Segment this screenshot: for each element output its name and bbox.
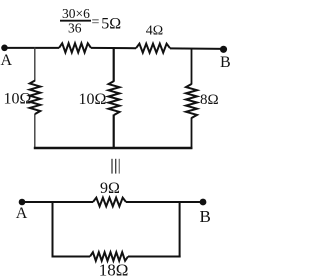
resistor 5 ohm (top) [59, 43, 91, 52]
node B (top circuit) [220, 46, 227, 53]
top branch wires [52, 201, 94, 203]
rectangle right side [179, 201, 181, 258]
svg-text:4Ω: 4Ω [146, 23, 163, 38]
wire between resistors [91, 47, 136, 49]
rectangle left side [52, 201, 54, 258]
resistor 8 ohm (right) [186, 84, 197, 118]
svg-text:=: = [92, 15, 100, 30]
right branch wire [191, 48, 193, 85]
resistor 10 ohm (left) [30, 81, 41, 115]
bottom branch wires [52, 256, 91, 258]
bottom wire (top circuit) [34, 147, 193, 149]
svg-text:30×6: 30×6 [62, 6, 90, 21]
left branch wire [34, 47, 36, 81]
node A (bottom circuit) [19, 199, 26, 206]
svg-text:9Ω: 9Ω [100, 180, 120, 197]
resistor 10 ohm (middle) [109, 81, 120, 115]
resistor 18 ohm [90, 252, 128, 261]
node B (bottom circuit) [200, 199, 207, 206]
svg-text:A: A [1, 52, 13, 69]
svg-text:A: A [16, 205, 28, 222]
svg-text:B: B [200, 207, 211, 226]
svg-text:10Ω: 10Ω [4, 90, 32, 107]
node A (top circuit) [1, 45, 8, 52]
resistor 9 ohm [93, 198, 126, 207]
wire rectangle to node B [180, 201, 203, 203]
wire to node B [170, 47, 224, 50]
svg-text:B: B [220, 54, 231, 71]
wire A to left branch [5, 47, 60, 49]
value label 30x6/36 = 5 ohm [60, 6, 121, 36]
svg-text:8Ω: 8Ω [200, 92, 219, 108]
equivalence symbol [112, 159, 119, 174]
resistor 4 ohm [136, 44, 170, 53]
svg-text:18Ω: 18Ω [99, 260, 129, 278]
middle branch wire [113, 47, 115, 81]
svg-text:5Ω: 5Ω [101, 15, 121, 32]
svg-text:10Ω: 10Ω [79, 91, 107, 108]
wire A to rectangle [22, 201, 54, 203]
svg-text:36: 36 [68, 21, 82, 36]
